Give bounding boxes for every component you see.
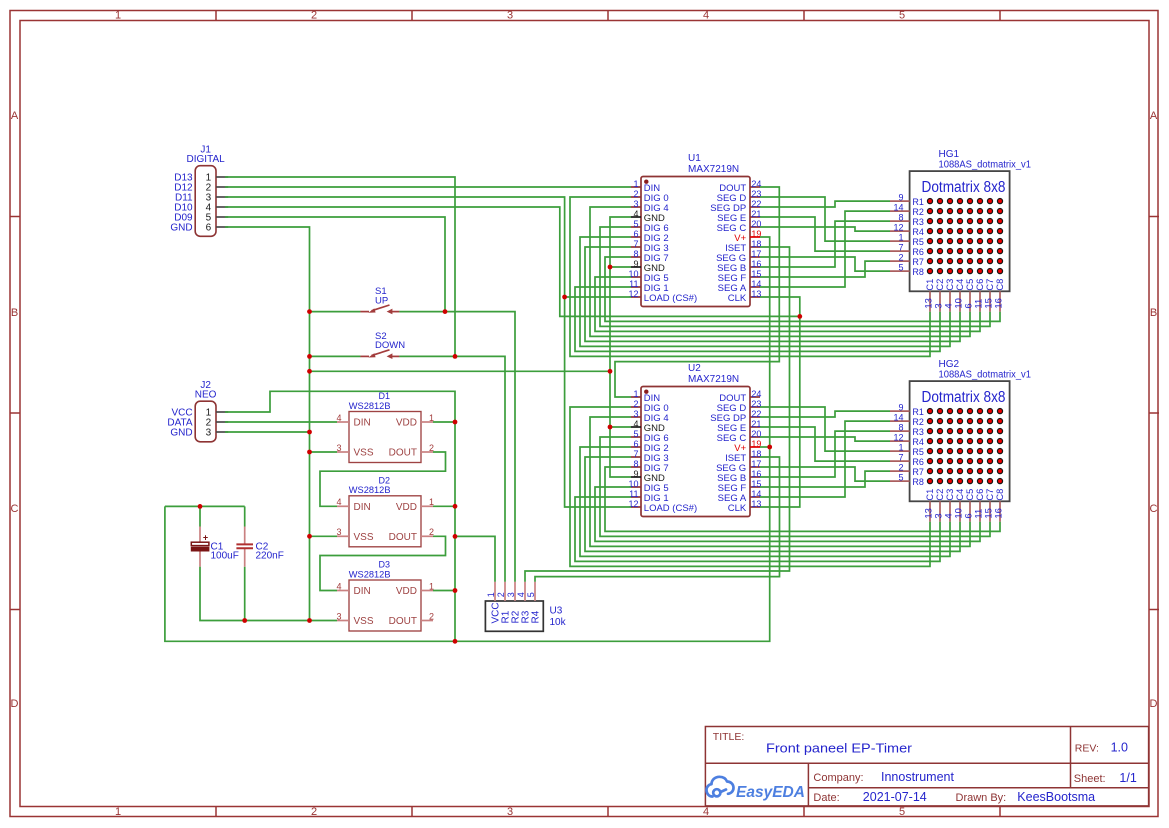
svg-text:3: 3 — [507, 10, 513, 22]
svg-text:24: 24 — [751, 389, 761, 399]
connector J2 (NEO) — [195, 401, 216, 442]
svg-text:R7: R7 — [912, 257, 924, 267]
U1 pin 14 stub — [750, 286, 760, 288]
svg-text:U2: U2 — [688, 363, 701, 374]
svg-text:C2: C2 — [935, 279, 945, 291]
U1 pin 2 stub — [631, 196, 641, 198]
svg-text:16: 16 — [751, 469, 761, 479]
junction CLK — [797, 314, 802, 319]
svg-text:DIN: DIN — [354, 418, 371, 429]
svg-text:7: 7 — [633, 449, 638, 459]
HG2 column pin 13 stub — [929, 501, 931, 522]
junction D09 / S1 — [443, 309, 448, 314]
wire U2 DIG6 pin5 to HG2 C7 — [600, 437, 990, 536]
svg-text:17: 17 — [751, 249, 761, 259]
svg-text:VSS: VSS — [354, 616, 374, 627]
svg-text:VDD: VDD — [396, 418, 417, 429]
connector J1 (DIGITAL) — [195, 166, 216, 237]
HG1 row pin 12 stub — [890, 230, 910, 232]
D1 pin stubs — [337, 422, 433, 452]
svg-text:R8: R8 — [912, 267, 924, 277]
wire net DATA: J2.2 to D1 DIN — [225, 421, 337, 423]
U3 pin 2 stub — [504, 582, 506, 601]
U1 pin 3 stub — [631, 206, 641, 208]
svg-text:1: 1 — [633, 179, 638, 189]
U1 pin 5 stub — [631, 226, 641, 228]
svg-text:10k: 10k — [550, 617, 567, 628]
wire VCC branch D1 VDD — [433, 421, 455, 423]
svg-text:3: 3 — [206, 428, 212, 439]
U1 pin 12 stub — [631, 296, 641, 298]
svg-text:C1: C1 — [925, 489, 935, 501]
svg-text:3: 3 — [336, 611, 341, 621]
wire U1 DIG6 pin5 to HG1 C7 — [600, 227, 990, 326]
svg-text:EasyEDA: EasyEDA — [736, 784, 805, 801]
wire VCC bus: cap rail down along bottom to V+ of U1/U2 — [165, 237, 770, 641]
U2 pin 2 stub — [631, 406, 641, 408]
HG1 column pin 16 stub — [999, 291, 1001, 312]
U1 pin 10 stub — [631, 276, 641, 278]
svg-text:LOAD (CS#): LOAD (CS#) — [644, 293, 697, 304]
HG2 LED dot grid 8x8 — [927, 409, 1002, 484]
svg-text:C5: C5 — [965, 279, 975, 291]
wire S1 right: switch to U3 pin 3 — [399, 312, 515, 582]
wire net D10/CLK: J1.4 down and right to CLK junction — [225, 207, 800, 316]
wire U2 DIG1 pin11 to HG2 C2 — [575, 497, 940, 561]
svg-text:CLK: CLK — [728, 503, 747, 514]
svg-text:C5: C5 — [965, 489, 975, 501]
svg-text:20: 20 — [751, 429, 761, 439]
HG1 row pin 2 stub — [890, 260, 910, 262]
svg-text:B: B — [11, 307, 18, 319]
wire V+ branch to U2 pin 19 — [760, 446, 770, 448]
wire VCC top of capacitors — [165, 505, 245, 507]
J1 pin 6 stub — [216, 226, 228, 228]
svg-text:D2: D2 — [379, 476, 391, 486]
svg-text:C1: C1 — [925, 279, 935, 291]
wire U1 DIG7 pin8 to HG1 C8 — [605, 257, 1000, 321]
HG2 row pin 1 stub — [890, 450, 910, 452]
svg-text:C8: C8 — [995, 279, 1005, 291]
dot matrix display HG2 (1088AS_dotmatrix_v1) — [910, 381, 1010, 501]
svg-text:C3: C3 — [945, 489, 955, 501]
svg-text:4: 4 — [633, 419, 638, 429]
wire C2 bottom lead to GND row — [244, 567, 246, 621]
wire U2 DIG0 pin2 to HG2 C1 — [570, 407, 930, 566]
wire U1 SEG DP pin22 to HG1 R1 — [760, 201, 890, 207]
svg-text:C: C — [1150, 503, 1158, 515]
U2 pin 15 stub — [750, 486, 760, 488]
svg-text:7: 7 — [633, 239, 638, 249]
U2 pin 21 stub — [750, 426, 760, 428]
junction C2 bottom / GND row — [242, 618, 247, 623]
svg-text:GND: GND — [170, 223, 192, 234]
U1 pin 4 stub — [631, 216, 641, 218]
svg-text:R4: R4 — [530, 610, 541, 623]
U1 pin 17 stub — [750, 256, 760, 258]
U1 pin-1 marker dot — [644, 180, 648, 184]
svg-text:8: 8 — [633, 249, 638, 259]
svg-text:2: 2 — [898, 253, 903, 263]
svg-text:5: 5 — [526, 592, 536, 597]
svg-text:16: 16 — [993, 508, 1004, 519]
svg-text:100uF: 100uF — [211, 551, 239, 562]
svg-text:2: 2 — [633, 189, 638, 199]
svg-text:1: 1 — [115, 10, 121, 22]
wire GND: U1 pin 4 down spine x=610 to U2 pin 9 — [610, 217, 631, 477]
U1 pin 18 stub — [750, 246, 760, 248]
svg-text:3: 3 — [336, 443, 341, 453]
svg-text:A: A — [11, 110, 19, 122]
svg-text:7: 7 — [898, 243, 903, 253]
U2 pin-1 marker dot — [644, 390, 648, 394]
U1 pin 6 stub — [631, 236, 641, 238]
svg-text:3: 3 — [633, 199, 638, 209]
U2 pin 10 stub — [631, 486, 641, 488]
svg-text:D1: D1 — [379, 391, 391, 401]
svg-text:DOUT: DOUT — [389, 448, 417, 459]
svg-text:C7: C7 — [985, 489, 995, 501]
HG1 column pin 3 stub — [939, 291, 941, 312]
svg-text:20: 20 — [751, 219, 761, 229]
U1 pin 11 stub — [631, 286, 641, 288]
svg-text:R2: R2 — [912, 207, 924, 217]
svg-text:13: 13 — [751, 499, 761, 509]
HG1 LED dot grid 8x8 — [927, 199, 1002, 274]
HG2 column pin 15 stub — [989, 501, 991, 522]
junction D13 / S2 — [453, 354, 458, 359]
wire U2 DIG3 pin7 to HG2 C4 — [585, 457, 960, 551]
svg-text:5: 5 — [899, 10, 905, 22]
wire U1 SEG C pin20 to HG1 R4 — [760, 227, 890, 231]
svg-text:R6: R6 — [912, 457, 924, 467]
svg-text:8: 8 — [898, 213, 903, 223]
svg-text:8: 8 — [898, 423, 903, 433]
svg-text:7: 7 — [898, 453, 903, 463]
svg-text:15: 15 — [751, 269, 761, 279]
svg-text:12: 12 — [893, 223, 903, 233]
wire U1 SEG E pin21 to HG1 R6 — [760, 217, 890, 251]
svg-text:Innostrument: Innostrument — [881, 770, 954, 784]
wire net D13: J1.1 to S2 right — [225, 177, 455, 356]
wire D2 DOUT to D3 DIN — [320, 536, 446, 590]
wire U1 SEG B pin16 to HG1 R3 — [760, 221, 890, 267]
svg-text:C: C — [11, 503, 19, 515]
svg-text:Sheet:: Sheet: — [1074, 773, 1106, 785]
svg-text:Date:: Date: — [813, 792, 839, 804]
junction V+ / U2 pin19 — [767, 445, 772, 450]
HG1 row pin 7 stub — [890, 250, 910, 252]
svg-text:R4: R4 — [912, 227, 924, 237]
svg-text:R1: R1 — [912, 407, 924, 417]
svg-text:13: 13 — [751, 289, 761, 299]
wire U2 SEG F pin15 to HG2 R7 — [760, 471, 890, 487]
svg-text:WS2812B: WS2812B — [349, 569, 391, 580]
wire U1 DIG4 pin3 to HG1 C5 — [590, 207, 970, 336]
junction VCC / bottom bus — [453, 639, 458, 644]
wire U1 DIG1 pin11 to HG1 C2 — [575, 287, 940, 351]
HG2 column pin 6 stub — [969, 501, 971, 522]
J1 pin 1 stub — [216, 176, 228, 178]
svg-text:1088AS_dotmatrix_v1: 1088AS_dotmatrix_v1 — [939, 160, 1032, 171]
svg-text:16: 16 — [751, 259, 761, 269]
svg-text:14: 14 — [893, 203, 903, 213]
U2 pin 5 stub — [631, 436, 641, 438]
U1 pin 22 stub — [750, 206, 760, 208]
svg-text:B: B — [1150, 307, 1157, 319]
junction GND spine / S2 — [307, 354, 312, 359]
U2 pin 13 stub — [750, 506, 760, 508]
svg-text:6: 6 — [206, 223, 212, 234]
svg-text:WS2812B: WS2812B — [349, 401, 391, 412]
svg-text:23: 23 — [751, 399, 761, 409]
U3 pin 3 stub — [514, 582, 516, 601]
svg-text:1.0: 1.0 — [1111, 740, 1128, 754]
wire U2 SEG A pin14 to HG2 R2 — [760, 421, 890, 497]
wire U1 DOUT pin24 down to U2 DIN — [615, 187, 779, 397]
svg-text:R5: R5 — [912, 237, 924, 247]
svg-text:4: 4 — [516, 592, 526, 597]
U3 pin 5 stub — [534, 582, 536, 601]
switch S1 (UP) — [360, 305, 399, 312]
wire U1 DIG5 pin10 to HG1 C6 — [595, 277, 980, 331]
wire U1 DIG2 pin6 to HG1 C3 — [580, 237, 950, 346]
HG2 column pin 3 stub — [939, 501, 941, 522]
U2 pin 3 stub — [631, 416, 641, 418]
svg-text:DOUT: DOUT — [389, 532, 417, 543]
svg-text:DOWN: DOWN — [375, 340, 405, 351]
svg-text:14: 14 — [893, 413, 903, 423]
svg-text:4: 4 — [336, 413, 341, 423]
junction GND spine / D2 VSS — [307, 534, 312, 539]
wire U1 SEG G pin17 to HG1 R8 — [760, 257, 890, 271]
wire S2 right: switch to U3 pin 2 — [399, 356, 505, 581]
svg-text:3: 3 — [506, 592, 516, 597]
svg-text:+: + — [203, 533, 208, 543]
svg-text:5: 5 — [633, 429, 638, 439]
wire C2 top lead — [244, 506, 246, 526]
svg-text:2: 2 — [898, 463, 903, 473]
IC U1 (MAX7219N) — [641, 177, 750, 307]
wire net D11/LOAD: J1.3 down to U1.12 and U2.12 LOAD — [225, 197, 631, 507]
J2 pin 2 stub — [216, 421, 228, 423]
U1 pin 19 stub — [750, 236, 760, 238]
HG2 row pin 7 stub — [890, 460, 910, 462]
svg-text:5: 5 — [899, 806, 905, 818]
svg-text:1: 1 — [486, 592, 496, 597]
wire U2 SEG C pin20 to HG2 R4 — [760, 437, 890, 441]
svg-text:6: 6 — [633, 439, 638, 449]
svg-text:4: 4 — [633, 209, 638, 219]
junction GND spine / bottom GND row — [307, 618, 312, 623]
wire GND branch to U1 pin 9 — [610, 266, 631, 268]
svg-text:4: 4 — [703, 10, 709, 22]
svg-text:19: 19 — [751, 229, 761, 239]
U1 pin 20 stub — [750, 226, 760, 228]
HG2 row pin 14 stub — [890, 420, 910, 422]
U2 pin 7 stub — [631, 456, 641, 458]
HG2 column pin 11 stub — [979, 501, 981, 522]
HG1 row pin 9 stub — [890, 200, 910, 202]
HG1 column pin 15 stub — [989, 291, 991, 312]
HG1 column pin 6 stub — [969, 291, 971, 312]
svg-text:22: 22 — [751, 199, 761, 209]
svg-text:MAX7219N: MAX7219N — [688, 374, 739, 385]
U2 pin 20 stub — [750, 436, 760, 438]
capacitor C1 (100uF, polarized) — [199, 527, 201, 543]
svg-text:MAX7219N: MAX7219N — [688, 164, 739, 175]
svg-text:U3: U3 — [550, 606, 563, 617]
svg-text:1: 1 — [115, 806, 121, 818]
svg-text:5: 5 — [633, 219, 638, 229]
LED driver D1 (WS2812B) — [349, 412, 421, 463]
junction GND at U2 pin4 — [608, 425, 613, 430]
U3 pin 1 stub — [494, 582, 496, 601]
HG2 column pin 16 stub — [999, 501, 1001, 522]
svg-text:17: 17 — [751, 459, 761, 469]
HG2 row pin 5 stub — [890, 480, 910, 482]
svg-text:WS2812B: WS2812B — [349, 485, 391, 496]
wire U2 ISET pin18 to U3 pin 5 — [535, 457, 780, 582]
U2 pin 18 stub — [750, 456, 760, 458]
svg-text:HG2: HG2 — [939, 359, 960, 370]
wire GND branch to U2 pin 4 — [610, 426, 631, 428]
junction GND spine / D1 VSS — [307, 450, 312, 455]
svg-text:R8: R8 — [912, 477, 924, 487]
junction VCC / D3 VDD — [453, 588, 458, 593]
wire GND: J2.3 to spine — [225, 431, 310, 433]
wire U2 SEG B pin16 to HG2 R3 — [760, 431, 890, 477]
HG2 row pin 8 stub — [890, 430, 910, 432]
switch S2 (DOWN) — [360, 350, 399, 357]
svg-text:R3: R3 — [912, 217, 924, 227]
svg-text:C7: C7 — [985, 279, 995, 291]
svg-text:NEO: NEO — [195, 390, 217, 401]
wire S2 left: GND spine to switch — [310, 355, 361, 357]
svg-text:14: 14 — [751, 279, 761, 289]
U1 pin 9 stub — [631, 266, 641, 268]
wire VCC branch to U3 pin 1 — [455, 536, 495, 581]
J1 pin 2 stub — [216, 186, 228, 188]
wire U2 SEG E pin21 to HG2 R6 — [760, 427, 890, 461]
svg-text:REV:: REV: — [1075, 742, 1099, 754]
junction LOAD at U1 pin12 — [562, 295, 567, 300]
wire U1 CLK pin 13 to CLK junction — [760, 297, 800, 316]
svg-text:22: 22 — [751, 409, 761, 419]
svg-text:VSS: VSS — [354, 448, 374, 459]
wire U2 DIG2 pin6 to HG2 C3 — [580, 447, 950, 556]
wire C1 top lead — [199, 506, 201, 526]
U2 pin 24 stub — [750, 396, 760, 398]
junction VCC / D1 VDD — [453, 420, 458, 425]
svg-text:1: 1 — [898, 233, 903, 243]
svg-text:2: 2 — [311, 10, 317, 22]
dot matrix display HG1 (1088AS_dotmatrix_v1) — [910, 171, 1010, 291]
svg-text:Front paneel EP-Timer: Front paneel EP-Timer — [766, 740, 913, 755]
svg-text:C4: C4 — [955, 279, 965, 291]
svg-text:GND: GND — [170, 428, 192, 439]
HG1 column pin 11 stub — [979, 291, 981, 312]
wire LOAD branch to U1 pin 12 — [565, 296, 631, 298]
HG1 column pin 13 stub — [929, 291, 931, 312]
svg-text:D: D — [11, 698, 19, 710]
svg-text:HG1: HG1 — [939, 149, 960, 160]
svg-text:KeesBootsma: KeesBootsma — [1017, 790, 1095, 804]
svg-text:C4: C4 — [955, 489, 965, 501]
svg-text:C8: C8 — [995, 489, 1005, 501]
svg-text:1: 1 — [898, 443, 903, 453]
wire U1 SEG F pin15 to HG1 R7 — [760, 261, 890, 277]
J1 pin 5 stub — [216, 216, 228, 218]
wire net D09: J1.5 to S1 right — [225, 217, 445, 312]
wire U1 DIG0 pin2 to HG1 C1 — [570, 197, 930, 356]
svg-text:UP: UP — [375, 295, 388, 306]
HG1 row pin 8 stub — [890, 220, 910, 222]
svg-text:1: 1 — [633, 389, 638, 399]
svg-text:Company:: Company: — [813, 772, 863, 784]
HG1 row pin 14 stub — [890, 210, 910, 212]
wire S1 left: GND spine to switch — [310, 311, 361, 313]
svg-text:9: 9 — [633, 259, 638, 269]
wire VCC branch D2 VDD — [433, 505, 455, 507]
HG1 row pin 1 stub — [890, 240, 910, 242]
title block — [705, 727, 1148, 806]
U2 pin 11 stub — [631, 496, 641, 498]
svg-text:16: 16 — [993, 298, 1004, 309]
U2 pin 12 stub — [631, 506, 641, 508]
svg-text:C2: C2 — [935, 489, 945, 501]
wire U2 DIG7 pin8 to HG2 C8 — [605, 467, 1000, 531]
svg-text:C3: C3 — [945, 279, 955, 291]
svg-text:2: 2 — [429, 611, 434, 621]
LED driver D3 (WS2812B) — [349, 580, 421, 631]
capacitor C2 (220nF) — [244, 527, 246, 544]
svg-text:1088AS_dotmatrix_v1: 1088AS_dotmatrix_v1 — [939, 370, 1032, 381]
D2 pin stubs — [337, 506, 433, 536]
svg-text:VDD: VDD — [396, 586, 417, 597]
U2 pin 23 stub — [750, 406, 760, 408]
wire GND: J1.6 down left spine x=309.5 — [225, 227, 310, 621]
EasyEDA logo — [707, 777, 734, 797]
svg-text:1/1: 1/1 — [1119, 771, 1136, 785]
svg-text:21: 21 — [751, 209, 761, 219]
U1 pin 1 stub — [631, 186, 641, 188]
U1 pin 24 stub — [750, 186, 760, 188]
svg-text:2: 2 — [496, 592, 506, 597]
svg-text:R1: R1 — [912, 197, 924, 207]
wire net VCC: J2.1 up over to VDD column x=455 down to bus — [225, 391, 455, 641]
svg-text:23: 23 — [751, 189, 761, 199]
HG1 column pin 10 stub — [959, 291, 961, 312]
U1 pin 13 stub — [750, 296, 760, 298]
svg-text:DOUT: DOUT — [389, 616, 417, 627]
svg-text:DIN: DIN — [354, 502, 371, 513]
U1 pin 23 stub — [750, 196, 760, 198]
svg-text:R6: R6 — [912, 247, 924, 257]
wire GND: spine to D2 VSS — [310, 535, 338, 537]
svg-text:C6: C6 — [975, 489, 985, 501]
svg-text:14: 14 — [751, 489, 761, 499]
D3 pin stubs — [337, 591, 433, 621]
wire U1 ISET pin18 to U3 pin 4 — [525, 247, 790, 582]
svg-text:R2: R2 — [912, 417, 924, 427]
junction GND row371 — [608, 369, 613, 374]
U1 pin 15 stub — [750, 276, 760, 278]
svg-text:3: 3 — [507, 806, 513, 818]
U2 pin 16 stub — [750, 476, 760, 478]
wire GND cross row y=371 — [310, 370, 611, 372]
resistor network U3 (10k) — [485, 601, 543, 631]
